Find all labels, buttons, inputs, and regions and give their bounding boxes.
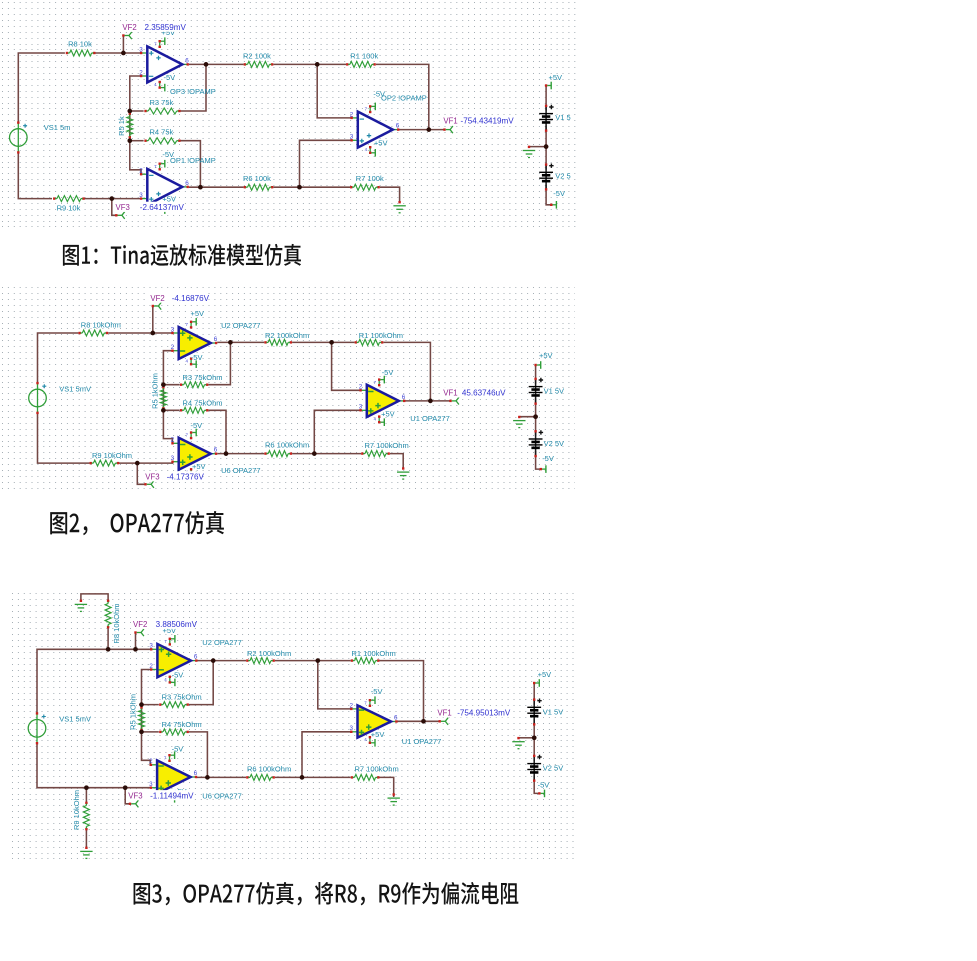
svg-text:R8 10kOhm: R8 10kOhm: [112, 603, 121, 643]
wire fig3 R4 row: [142, 731, 159, 733]
svg-text:R2 100kOhm: R2 100kOhm: [247, 649, 291, 658]
svg-text:R5 1k: R5 1k: [117, 116, 126, 136]
svg-text:VS1 5mV: VS1 5mV: [59, 715, 91, 724]
resistor R8 10kOhm (fig2): [78, 330, 108, 336]
battery V2 5V: fig2 negative supply: [529, 430, 564, 457]
svg-text:+5V: +5V: [539, 351, 553, 360]
op-amp U6 OPA277 (fig2): [171, 429, 218, 479]
wire fig3 R7 right to ground: [379, 777, 394, 797]
junction fig1 VF2 node: [121, 51, 126, 56]
junction fig2 R4-U6out node: [224, 451, 229, 456]
svg-text:U6 OPA277: U6 OPA277: [221, 466, 260, 475]
wire fig3 R3 right to U2 output: [189, 661, 213, 705]
resistor R7 100k (fig1): [350, 184, 380, 190]
wire fig2 node to U1 pin2: [332, 342, 361, 390]
svg-text:U2 OPA277: U2 OPA277: [202, 638, 241, 647]
measurement VF1 meter (fig3): [435, 707, 511, 717]
battery V2 5V: fig3 negative supply: [527, 755, 563, 782]
resistor R4 75kOhm (fig3): [159, 729, 189, 735]
svg-text:U2 OPA277: U2 OPA277: [221, 321, 260, 330]
op-amp U2 OPA277 (fig2): [171, 318, 218, 368]
svg-text:OP1 !OPAMP: OP1 !OPAMP: [170, 156, 216, 165]
wire fig3 R4 junction to U6 pin2: [142, 732, 151, 765]
voltage pin VF1 (fig3): [439, 718, 449, 725]
wire fig1 OP1 output to R6: [189, 186, 244, 188]
measurement VF3 meter (fig2): [143, 471, 205, 481]
battery V2 5: fig1 negative supply: [539, 163, 570, 190]
measurement VF2 meter (fig3): [131, 619, 198, 629]
wire fig1 R4 row: [130, 140, 144, 142]
svg-text:6: 6: [396, 123, 400, 130]
resistor R4 75kOhm (fig2): [180, 407, 208, 413]
svg-text:R7 100kOhm: R7 100kOhm: [365, 441, 409, 450]
voltage pin VF1 (fig1): [443, 126, 453, 133]
svg-text:2: 2: [359, 384, 363, 391]
ground fig2 supply mid ground: [513, 416, 525, 428]
junction fig3 R9 node: [84, 785, 89, 790]
junction fig1 OP2 out node: [426, 127, 431, 132]
wire fig3 R5 span: [141, 705, 143, 732]
voltage pin VF2 (fig3): [134, 629, 144, 636]
wire fig2 R5 span: [162, 385, 164, 411]
junction fig3 R3-R5 node: [139, 702, 144, 707]
svg-text:-5V: -5V: [162, 150, 174, 159]
resistor R1 100kOhm (fig2): [355, 339, 384, 345]
power pin -5V supply bottom (fig2): [540, 465, 546, 473]
wire fig2 VF3 stub: [137, 463, 145, 484]
power pin +5V supply top (fig3): [533, 679, 539, 687]
svg-text:2.35859mV: 2.35859mV: [145, 23, 187, 32]
resistor R8 10kOhm (fig3): [105, 600, 111, 629]
wire fig3 VF3 stub: [125, 788, 129, 804]
ground fig3 R8 ground: [75, 600, 87, 612]
svg-text:V1 5V: V1 5V: [543, 708, 563, 717]
op-amp OP2 (fig1): [350, 103, 400, 157]
wire fig1 R6 to R7: [273, 186, 350, 188]
wire fig2 R6 to R7: [292, 453, 361, 455]
svg-text:6: 6: [394, 715, 398, 722]
measurement VF2 meter (fig2): [148, 293, 210, 303]
resistor R1 100kOhm (fig3): [351, 658, 380, 664]
wire fig1 OP3 pin2 feedback: [130, 76, 144, 111]
svg-text:6: 6: [214, 447, 218, 454]
svg-text:-754.43419mV: -754.43419mV: [461, 116, 515, 125]
svg-text:U6 OPA277: U6 OPA277: [202, 792, 241, 801]
svg-text:R1 100kOhm: R1 100kOhm: [352, 649, 396, 658]
svg-text:6: 6: [185, 180, 189, 187]
svg-text:2: 2: [171, 344, 175, 351]
wire fig2 R2 to R1: [292, 341, 355, 343]
svg-text:V2 5V: V2 5V: [544, 439, 564, 448]
svg-text:2: 2: [139, 69, 143, 76]
wire fig2 R6R7 node to U1 pin3: [314, 410, 360, 453]
wire fig3 R9 bottom to ground: [85, 830, 87, 848]
wire fig2 R1 right to U1 feedback corner: [383, 342, 430, 401]
junction fig2 R2-R1 node: [329, 340, 334, 345]
voltage pin VF2 (fig1): [122, 32, 132, 39]
svg-text:2: 2: [350, 111, 354, 118]
wire fig1 OP3 output to R2: [189, 63, 244, 65]
svg-text:2: 2: [139, 168, 143, 175]
resistor R5 1k (fig1): [127, 113, 133, 139]
junction fig3 U2 out node: [211, 658, 216, 663]
svg-text:-5V: -5V: [191, 353, 203, 362]
svg-text:+5V: +5V: [538, 670, 552, 679]
svg-text:6: 6: [402, 394, 406, 401]
wire fig3 V1 to mid node: [533, 719, 535, 738]
wire fig3 R6R7 node to U1 pin3: [302, 732, 351, 778]
svg-text:-5V: -5V: [164, 73, 176, 82]
svg-text:-5V: -5V: [553, 189, 565, 198]
wire fig3 U1 output to VF1: [395, 720, 439, 722]
svg-text:3: 3: [359, 404, 363, 411]
svg-text:V1 5: V1 5: [555, 113, 570, 122]
svg-text:R9 10kOhm: R9 10kOhm: [92, 451, 132, 460]
svg-text:U1 OPA277: U1 OPA277: [402, 737, 441, 746]
svg-text:-4.17376V: -4.17376V: [167, 473, 205, 482]
svg-text:-5V: -5V: [373, 90, 385, 99]
junction fig1 R3-R5 node: [127, 109, 132, 114]
svg-text:V2 5: V2 5: [555, 172, 570, 181]
junction fig1 supply mid node: [544, 144, 549, 149]
junction fig1 OP3 out node: [204, 62, 209, 67]
power pin +5V supply top (fig1): [545, 82, 551, 90]
svg-text:+5V: +5V: [191, 309, 205, 318]
resistor R9 10kOhm (fig2): [90, 460, 120, 466]
svg-text:VF1: VF1: [437, 708, 451, 717]
voltage pin VF3 (fig1): [115, 212, 125, 219]
junction fig3 R6-R7 node: [300, 775, 305, 780]
resistor R1 100k (fig1): [346, 61, 376, 67]
svg-text:R9 10kOhm: R9 10kOhm: [72, 790, 81, 830]
wire fig2 U2 pin2 feedback: [163, 351, 179, 385]
resistor R7 100kOhm (fig3): [351, 774, 380, 780]
svg-text:3: 3: [149, 643, 153, 650]
measurement VF3 meter (fig1): [114, 202, 185, 212]
wire fig3 left rail bottom: [37, 743, 151, 788]
ground fig1 R7 ground: [393, 201, 405, 213]
battery V1 5: fig1 positive supply: [539, 105, 570, 132]
voltage pin VF3 (fig2): [144, 481, 154, 488]
wire fig1 V2 to -5V pin: [546, 185, 551, 205]
voltage source VS1 5mV: fig2 input source: [29, 382, 91, 414]
caption: fig2 caption: [50, 511, 224, 535]
measurement VF3 meter (fig3): [126, 790, 194, 800]
resistor R2 100kOhm (fig2): [264, 339, 292, 345]
measurement VF1 meter (fig2): [441, 387, 506, 397]
wire fig1 R4 junction to OP1 pin2: [130, 141, 141, 175]
measurement VF1 meter (fig1): [441, 115, 517, 125]
wire fig2 VF2 stub: [152, 307, 154, 333]
svg-text:V2 5V: V2 5V: [543, 764, 563, 773]
wire fig1 left rail VS1 bottom to R9 row: [18, 153, 52, 199]
op-amp U1 OPA277 (fig3): [349, 696, 398, 746]
junction fig1 R5-R4 node: [127, 138, 132, 143]
svg-text:-5V: -5V: [382, 368, 394, 377]
svg-text:R9 10k: R9 10k: [57, 204, 81, 213]
svg-text:+5V: +5V: [374, 139, 388, 148]
wire fig2 left rail bottom: [38, 412, 90, 463]
wire fig1 R3 right to OP3 output: [180, 64, 206, 111]
resistor R3 75kOhm (fig2): [180, 382, 208, 388]
svg-text:3: 3: [349, 725, 353, 732]
wire fig1 R5 top to R4 junction: [129, 111, 131, 141]
svg-text:-5V: -5V: [542, 454, 554, 463]
wire fig1 supply +5V to V1: [545, 86, 547, 111]
svg-text:6: 6: [194, 770, 198, 777]
svg-text:6: 6: [185, 57, 189, 64]
op-amp OP3 (fig1): [139, 37, 189, 91]
wire fig3 V2 to -5V pin: [534, 776, 538, 794]
wire fig3 R9 stub down: [85, 788, 87, 802]
svg-text:VS1 5m: VS1 5m: [44, 123, 71, 132]
svg-text:3: 3: [171, 326, 175, 333]
svg-text:VF3: VF3: [128, 791, 142, 800]
svg-text:V1 5V: V1 5V: [544, 387, 564, 396]
junction fig1 OP1 out node: [198, 185, 203, 190]
svg-text:R7 100kOhm: R7 100kOhm: [355, 764, 399, 773]
ground fig2 R7 ground: [397, 467, 409, 479]
svg-text:-754.95013mV: -754.95013mV: [457, 708, 511, 717]
svg-text:-2.64137mV: -2.64137mV: [140, 203, 185, 212]
svg-text:VF3: VF3: [145, 473, 159, 482]
svg-text:R4 75kOhm: R4 75kOhm: [162, 720, 202, 729]
svg-text:U1 OPA277: U1 OPA277: [410, 414, 449, 423]
battery V1 5V: fig3 positive supply: [527, 698, 563, 725]
wire fig2 mid ground stub: [519, 416, 535, 418]
wire fig3 R4 right to U6 output: [189, 732, 208, 778]
wire fig3 supply +5V to V1: [533, 683, 535, 705]
wire fig3 R2 to R1: [275, 660, 351, 662]
svg-text:R1 100k: R1 100k: [350, 51, 378, 60]
wire fig1 R6R7 node to OP2 pin3: [300, 140, 351, 187]
wire fig1 mid node ground stub: [529, 146, 546, 148]
resistor R6 100kOhm (fig2): [264, 451, 292, 457]
wire fig2 R9 to U6 pin3: [119, 462, 173, 463]
svg-text:3: 3: [171, 455, 175, 462]
junction fig2 VF2 node: [150, 331, 155, 336]
svg-text:3: 3: [139, 192, 143, 199]
wire fig3 R8 top to ground: [81, 594, 108, 601]
svg-text:VF1: VF1: [443, 116, 457, 125]
junction fig3 VF2 node: [133, 647, 138, 652]
wire fig1 R9 to OP1 pin3: [82, 198, 141, 200]
svg-text:R3 75k: R3 75k: [150, 98, 174, 107]
junction fig1 VF3 node: [109, 196, 114, 201]
op-amp U2 OPA277 (fig3): [149, 635, 198, 686]
resistor R6 100k (fig1): [244, 184, 274, 190]
svg-text:OP3 !OPAMP: OP3 !OPAMP: [170, 87, 216, 96]
resistor R5 1kOhm (fig3): [139, 706, 145, 731]
junction fig2 R3-R5 node: [161, 382, 166, 387]
voltage pin VF3 (fig3): [129, 800, 139, 807]
wire fig1 VF3 stub: [112, 199, 116, 216]
svg-text:VF3: VF3: [116, 203, 130, 212]
svg-text:VF1: VF1: [443, 389, 457, 398]
svg-text:R3 75kOhm: R3 75kOhm: [162, 693, 202, 702]
svg-text:R6 100kOhm: R6 100kOhm: [265, 441, 309, 450]
svg-text:2: 2: [149, 758, 153, 765]
junction fig2 supply mid node: [533, 414, 538, 419]
wire fig1 node A to OP2 pin2: [317, 64, 351, 118]
junction fig2 R5-R4 node: [161, 408, 166, 413]
caption: fig1 caption: [63, 244, 301, 266]
power pin -5V supply bottom (fig3): [538, 790, 544, 798]
wire fig1 R4 right to OP1 output: [180, 141, 200, 188]
ground fig3 R7 ground: [388, 793, 400, 805]
wire fig3 U2 output to R2: [197, 660, 246, 662]
wire fig2 R7 right to ground: [390, 454, 403, 468]
wire fig2 mid node to V2: [535, 417, 537, 437]
svg-text:-5V: -5V: [191, 421, 203, 430]
voltage source VS1 5mV: fig3 input source: [28, 712, 91, 744]
wire fig3 left rail top: [37, 649, 151, 713]
svg-text:R2 100k: R2 100k: [243, 51, 271, 60]
junction fig2 U2 out node: [228, 340, 233, 345]
svg-text:2: 2: [171, 437, 175, 444]
svg-text:R4 75k: R4 75k: [150, 128, 174, 137]
wire fig3 U2 pin2 feedback: [142, 670, 159, 705]
wire fig1 V1 to mid node: [545, 126, 547, 147]
svg-text:2: 2: [149, 663, 153, 670]
svg-text:R7 100k: R7 100k: [356, 174, 384, 183]
op-amp OP1 (fig1): [139, 160, 189, 214]
svg-text:3: 3: [350, 134, 354, 141]
svg-text:R1 100kOhm: R1 100kOhm: [359, 331, 403, 340]
power pin -5V supply bottom (fig1): [550, 201, 556, 209]
ground fig1 supply mid ground: [523, 146, 535, 158]
wire fig3 R8 bottom to top row: [107, 628, 109, 649]
junction fig3 R8 node: [106, 647, 111, 652]
wire fig1 mid node to V2: [545, 147, 547, 170]
wire fig2 V2 to -5V pin: [536, 451, 540, 469]
svg-text:VF2: VF2: [150, 294, 164, 303]
svg-text:6: 6: [214, 336, 218, 343]
svg-text:+5V: +5V: [192, 462, 206, 471]
svg-text:+5V: +5V: [549, 73, 563, 82]
svg-text:3: 3: [149, 781, 153, 788]
ground fig3 R9 ground: [80, 847, 92, 859]
svg-text:-5V: -5V: [538, 781, 550, 790]
wire fig3 node to U1 pin2: [318, 661, 351, 709]
junction fig3 R5-R4 node: [139, 730, 144, 735]
wire fig2 supply +5V to V1: [535, 365, 537, 384]
svg-text:2: 2: [349, 702, 353, 709]
junction fig1 R6-R7 node: [297, 185, 302, 190]
svg-text:VS1 5mV: VS1 5mV: [59, 384, 91, 393]
wire fig2 left rail top: [38, 333, 79, 384]
svg-text:R8 10kOhm: R8 10kOhm: [81, 320, 121, 329]
caption: fig3 caption: [134, 882, 519, 905]
svg-text:R4 75kOhm: R4 75kOhm: [183, 398, 223, 407]
svg-text:-5V: -5V: [371, 687, 383, 696]
svg-text:3: 3: [139, 46, 143, 53]
wire fig3 mid node to V2: [533, 738, 535, 761]
junction fig3 R2-R1 node: [315, 658, 320, 663]
svg-text:-5V: -5V: [172, 671, 184, 680]
wire fig1 R2 to R1: [273, 63, 346, 65]
resistor R5 1kOhm (fig2): [160, 386, 166, 409]
battery V1 5V: fig2 positive supply: [529, 378, 564, 405]
wire fig2 V1 to mid node: [535, 399, 537, 417]
svg-text:-5V: -5V: [172, 744, 184, 753]
junction fig3 R4-U6out node: [205, 775, 210, 780]
wire fig2 R4 right to U6 output: [208, 410, 226, 453]
measurement VF2 meter (fig1): [120, 22, 187, 32]
op-amp U1 OPA277 (fig2): [359, 376, 406, 426]
wire fig2 U6 output to R6: [217, 453, 264, 455]
ground fig3 supply mid ground: [512, 737, 524, 749]
svg-text:R6 100kOhm: R6 100kOhm: [247, 764, 291, 773]
wire fig1 R7 right to ground: [380, 187, 400, 201]
svg-text:OP2 !OPAMP: OP2 !OPAMP: [381, 93, 427, 102]
resistor R2 100kOhm (fig3): [246, 658, 275, 664]
junction fig3 U1 out node: [421, 719, 426, 724]
svg-text:VF2: VF2: [133, 620, 147, 629]
wire fig2 R4 junction to U6 pin2: [163, 410, 172, 443]
op-amp U6 OPA277 (fig3): [149, 751, 198, 802]
resistor R7 100kOhm (fig2): [361, 451, 390, 457]
resistor R6 100kOhm (fig3): [246, 774, 275, 780]
wire fig3 U6 output to R6: [196, 776, 246, 778]
resistor R4 75k (fig1): [144, 138, 180, 144]
voltage source VS1 5m: fig1 input source: [9, 121, 70, 153]
wire fig1 VF2 stub: [122, 36, 124, 53]
wire fig3 R1 right to U1 feedback corner: [379, 661, 423, 722]
svg-text:R5 1kOhm: R5 1kOhm: [150, 373, 159, 409]
voltage pin VF2 (fig2): [152, 302, 162, 309]
junction fig3 supply mid node: [532, 735, 537, 740]
wire fig3 mid ground stub: [519, 737, 535, 739]
wire fig1 R8 to OP3 pin3: [95, 52, 141, 54]
wire fig2 U1 output to VF1: [404, 400, 450, 402]
power pin +5V supply top (fig2): [534, 361, 540, 369]
svg-text:R8 10k: R8 10k: [68, 40, 92, 49]
wire fig1 left rail VS1 top to R8 row: [18, 53, 65, 123]
wire fig2 R8 to U2 pin3: [108, 332, 172, 334]
svg-text:3.88506mV: 3.88506mV: [156, 620, 198, 629]
wire fig1 R1 to OP2 feedback corner: [376, 64, 429, 129]
svg-text:R3 75kOhm: R3 75kOhm: [183, 373, 223, 382]
resistor R3 75kOhm (fig3): [159, 702, 189, 708]
junction fig3 VF3 node: [123, 785, 128, 790]
svg-text:VF2: VF2: [122, 23, 136, 32]
wire fig1 OP2 output to VF1: [398, 129, 444, 131]
svg-text:R5 1kOhm: R5 1kOhm: [128, 694, 137, 730]
svg-text:-4.16876V: -4.16876V: [172, 294, 210, 303]
svg-text:-1.11494mV: -1.11494mV: [150, 791, 194, 800]
svg-text:45.63746uV: 45.63746uV: [462, 389, 506, 398]
wire fig2 U2 output to R2: [217, 341, 264, 343]
junction fig2 U1 out node: [428, 399, 433, 404]
junction fig1 R2-R1 node A: [315, 62, 320, 67]
voltage pin VF1 (fig2): [449, 397, 459, 404]
svg-text:6: 6: [194, 654, 198, 661]
wire fig3 VF2 stub: [135, 633, 137, 649]
wire fig2 R4 row: [163, 409, 179, 411]
junction fig2 R6-R7 node: [312, 451, 317, 456]
resistor R9 10k (fig1): [53, 196, 85, 202]
svg-text:R2 100kOhm: R2 100kOhm: [265, 331, 309, 340]
wire fig3 R6 to R7: [275, 776, 351, 778]
svg-text:+5V: +5V: [371, 730, 385, 739]
resistor R9 10kOhm (fig3): [83, 802, 89, 831]
wire fig2 R3 right to U2 output: [208, 342, 230, 384]
resistor R8 10k (fig1): [66, 50, 96, 56]
resistor R2 100k (fig1): [244, 61, 274, 67]
svg-text:+5V: +5V: [381, 409, 395, 418]
svg-text:R6 100k: R6 100k: [243, 174, 271, 183]
